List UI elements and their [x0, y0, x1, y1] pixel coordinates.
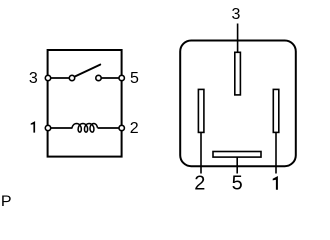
- relay body rectangle: [48, 50, 122, 157]
- switch arm (open contact): [75, 65, 101, 77]
- svg-text:3: 3: [232, 6, 241, 23]
- terminal 2: [119, 125, 124, 130]
- svg-text:P: P: [1, 193, 12, 206]
- svg-text:3: 3: [29, 70, 38, 87]
- pin 5 leader line: [236, 157, 238, 174]
- pin 5 slot: [213, 152, 261, 158]
- wire switch contact B to terminal 5: [99, 77, 122, 79]
- pin 2 slot: [198, 89, 204, 132]
- svg-text:2: 2: [130, 120, 139, 137]
- pin 1 slot: [273, 89, 279, 132]
- terminal 5: [119, 75, 124, 80]
- coil L1: [72, 124, 97, 133]
- switch contact B: [96, 75, 101, 80]
- pin 3 slot: [235, 52, 241, 95]
- label terminal 1: [31, 121, 35, 133]
- svg-text:5: 5: [130, 70, 139, 87]
- pin 3 leader line: [237, 24, 239, 53]
- pin 1 label: [273, 176, 278, 190]
- terminal 3: [45, 75, 50, 80]
- pin 1 leader line: [275, 133, 277, 174]
- connector outline: [180, 41, 296, 167]
- switch contact A: [69, 75, 74, 80]
- pin 2 leader line: [200, 133, 202, 174]
- wire coil to terminal 2: [98, 127, 122, 129]
- wire terminal 3 to switch contact A: [48, 77, 72, 79]
- wire terminal 1 to coil: [48, 127, 73, 129]
- svg-text:5: 5: [232, 173, 243, 195]
- svg-text:2: 2: [194, 173, 205, 195]
- terminal 1: [45, 125, 50, 130]
